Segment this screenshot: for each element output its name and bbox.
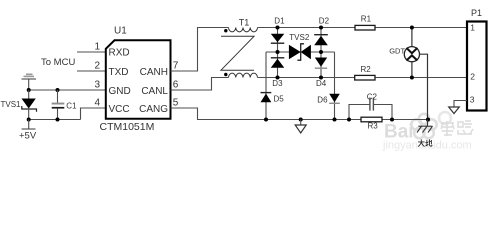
gas discharge tube GDT — [404, 28, 427, 120]
transformer T1 core Z mark — [221, 36, 254, 70]
svg-text:CANH: CANH — [140, 67, 168, 78]
transformer T1 top winding — [229, 28, 258, 32]
wire pin2 stub — [77, 70, 105, 72]
watermark baidu jingyan logo — [382, 121, 473, 152]
wire clamp node rail — [266, 51, 335, 53]
svg-text:CANG: CANG — [139, 104, 168, 115]
wire CANG pin5 drop — [171, 108, 429, 120]
ground (signal ground, 3 bars) — [22, 74, 37, 91]
wire CANL pin6 riser — [171, 78, 229, 91]
svg-text:R2: R2 — [361, 65, 372, 74]
diode D6 — [329, 94, 340, 104]
TVS2 bidirectional suppressor — [289, 44, 311, 60]
svg-text:R1: R1 — [361, 15, 372, 24]
svg-text:3: 3 — [94, 80, 100, 91]
T1 bottom winding polarity dot — [224, 73, 227, 76]
op-amp U1 chip body CTM1051M — [106, 40, 171, 119]
ground arrow on CANG rail — [295, 120, 306, 134]
ground arrow at P1 pin3 — [449, 107, 460, 114]
junction dots CANG rail — [264, 118, 268, 122]
svg-text:RXD: RXD — [109, 48, 130, 59]
svg-text:P1: P1 — [471, 8, 482, 18]
svg-text:TVS1: TVS1 — [1, 100, 22, 109]
transformer T1 bottom winding — [229, 73, 258, 77]
resistor R1 — [355, 25, 375, 30]
svg-text:6: 6 — [173, 80, 179, 91]
svg-text:TVS2: TVS2 — [289, 33, 310, 42]
label earth (da di) — [418, 139, 432, 146]
diode D2 — [314, 28, 328, 53]
connector P1 body — [467, 22, 487, 111]
wire VCC riser — [81, 108, 106, 120]
junction at C1 bottom — [56, 118, 60, 122]
wire CANH line (top rail) — [258, 27, 468, 29]
svg-text:7: 7 — [173, 61, 179, 72]
diode D5 — [261, 93, 272, 103]
wire pin1 stub — [77, 51, 105, 53]
node junction at TVS1 top — [27, 88, 31, 92]
svg-text:3: 3 — [470, 95, 475, 105]
junction dots top rail — [276, 26, 280, 30]
svg-text:TXD: TXD — [109, 67, 129, 78]
T1 top winding polarity dot — [224, 29, 227, 32]
diode D3 — [271, 52, 285, 78]
wire D5 branch — [265, 52, 267, 120]
svg-text:CTM1051M: CTM1051M — [100, 121, 155, 133]
svg-text:GDT: GDT — [389, 46, 405, 55]
resistor R2 — [355, 75, 375, 80]
svg-text:D6: D6 — [317, 95, 328, 104]
svg-text:D2: D2 — [319, 17, 330, 26]
capacitor C2 plates — [369, 98, 371, 111]
earth ground symbol — [417, 120, 433, 133]
wire P1 pin3 to ground arrow — [454, 101, 467, 107]
node junction at C1 top — [56, 88, 60, 92]
diode D1 — [271, 28, 285, 53]
svg-text:D4: D4 — [316, 79, 327, 88]
junction dots clamp node — [276, 50, 280, 54]
svg-text:T1: T1 — [239, 17, 250, 27]
svg-text:D3: D3 — [272, 79, 283, 88]
svg-text:1: 1 — [94, 42, 100, 53]
svg-text:D1: D1 — [274, 17, 285, 26]
svg-text:+5V: +5V — [19, 130, 37, 141]
wire CANL line — [258, 77, 468, 79]
wire D6 branch — [334, 52, 336, 120]
svg-text:CANL: CANL — [141, 86, 168, 97]
svg-text:C1: C1 — [66, 101, 77, 110]
svg-text:1: 1 — [470, 23, 475, 33]
capacitor C1 — [52, 90, 65, 120]
resistor R3 — [361, 117, 382, 122]
svg-text:D5: D5 — [274, 95, 285, 104]
junction dots CANL line — [276, 76, 280, 80]
watermark flower outlines — [411, 112, 451, 138]
svg-text:VCC: VCC — [109, 104, 130, 115]
svg-text:U1: U1 — [114, 25, 127, 36]
diode D4 — [315, 52, 327, 78]
wire CANH pin7 riser — [171, 28, 229, 72]
svg-text:C2: C2 — [367, 92, 378, 101]
svg-text:To MCU: To MCU — [41, 57, 75, 68]
svg-text:2: 2 — [94, 61, 100, 72]
wire +5V rail — [29, 119, 81, 121]
svg-text:5: 5 — [173, 98, 179, 109]
junction dots C2 branch — [347, 118, 351, 122]
svg-text:GND: GND — [109, 86, 131, 97]
+5V power symbol — [22, 120, 36, 130]
junction dot GDT top — [410, 26, 414, 30]
capacitor C2 branch — [349, 105, 392, 120]
junction dot GDT bottom — [410, 76, 414, 80]
svg-text:4: 4 — [94, 98, 100, 109]
wire GND net: gnd stem to chip pin3 — [29, 89, 105, 91]
svg-text:R3: R3 — [368, 122, 379, 131]
junction dot CANG/earth — [426, 118, 430, 122]
TVS1 — [22, 90, 37, 120]
junction at TVS1 bottom — [27, 118, 31, 122]
svg-text:2: 2 — [470, 72, 475, 82]
